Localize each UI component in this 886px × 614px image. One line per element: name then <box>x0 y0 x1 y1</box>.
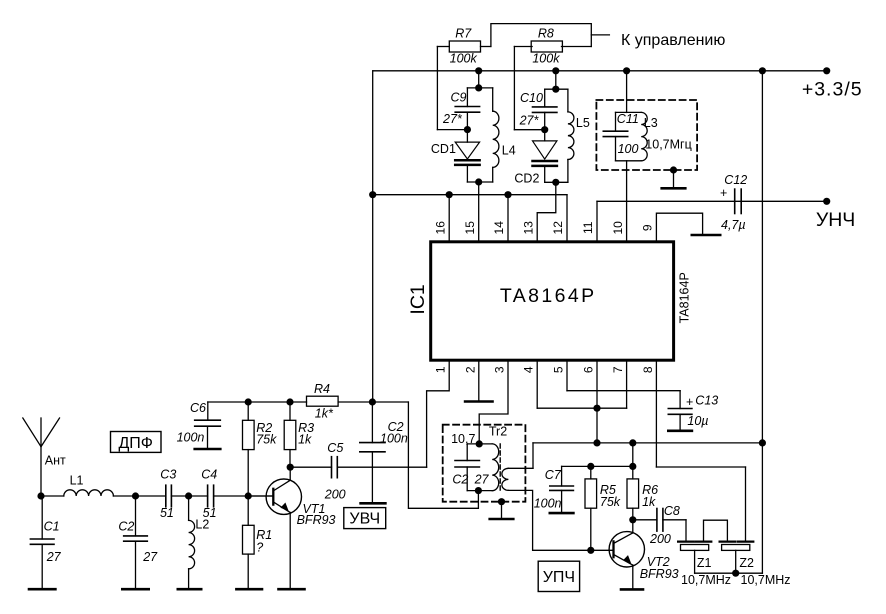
svg-text:?: ? <box>256 541 263 555</box>
svg-text:УПЧ: УПЧ <box>543 569 575 586</box>
svg-text:C2: C2 <box>118 519 134 533</box>
svg-text:1k: 1k <box>642 495 656 509</box>
svg-text:100n: 100n <box>534 496 562 510</box>
svg-text:+3.3/5: +3.3/5 <box>802 79 863 101</box>
svg-text:R8: R8 <box>538 27 554 41</box>
svg-text:Z1: Z1 <box>697 556 712 570</box>
svg-text:L2: L2 <box>195 517 209 531</box>
svg-text:+: + <box>686 395 693 409</box>
svg-text:C11: C11 <box>617 112 639 126</box>
svg-text:51: 51 <box>160 506 174 520</box>
svg-text:R7: R7 <box>455 27 472 41</box>
svg-text:C6: C6 <box>190 401 206 415</box>
svg-text:27*: 27* <box>519 113 540 127</box>
svg-text:TA8164P: TA8164P <box>500 285 597 307</box>
svg-text:14: 14 <box>492 221 506 235</box>
svg-text:100n: 100n <box>380 432 408 446</box>
svg-text:ДПФ: ДПФ <box>118 435 153 452</box>
svg-text:УВЧ: УВЧ <box>349 511 380 528</box>
svg-text:C13: C13 <box>695 394 718 408</box>
svg-text:Ант: Ант <box>45 454 66 468</box>
svg-text:1k*: 1k* <box>315 407 334 421</box>
svg-text:200: 200 <box>649 532 671 546</box>
svg-text:200: 200 <box>324 487 346 501</box>
svg-text:C9: C9 <box>451 91 467 105</box>
svg-text:C3: C3 <box>160 468 176 482</box>
svg-text:6: 6 <box>582 366 596 373</box>
svg-text:8: 8 <box>641 366 655 373</box>
svg-text:100k: 100k <box>450 51 478 65</box>
svg-text:C8: C8 <box>664 504 680 518</box>
svg-text:27: 27 <box>142 550 158 564</box>
svg-text:L3: L3 <box>644 116 658 130</box>
svg-text:10,7Мгц: 10,7Мгц <box>645 137 691 151</box>
svg-text:100k: 100k <box>532 51 560 65</box>
svg-text:+: + <box>720 186 727 200</box>
svg-text:Tr2: Tr2 <box>489 425 507 439</box>
svg-text:27*: 27* <box>442 112 463 126</box>
svg-text:12: 12 <box>551 221 565 235</box>
svg-text:10,7MHz: 10,7MHz <box>681 573 731 587</box>
svg-text:C7: C7 <box>545 468 562 482</box>
svg-text:C5: C5 <box>327 441 343 455</box>
svg-text:L5: L5 <box>576 116 590 130</box>
svg-text:3: 3 <box>493 366 507 373</box>
svg-text:100: 100 <box>618 142 639 156</box>
svg-text:CD2: CD2 <box>514 172 539 186</box>
svg-text:C10: C10 <box>520 91 543 105</box>
svg-text:2: 2 <box>463 366 477 373</box>
svg-text:CD1: CD1 <box>431 142 456 156</box>
svg-text:1: 1 <box>434 366 448 373</box>
svg-text:IC1: IC1 <box>407 284 429 314</box>
svg-text:R4: R4 <box>314 382 330 396</box>
svg-text:10µ: 10µ <box>687 414 708 428</box>
svg-text:К управлению: К управлению <box>621 32 725 49</box>
svg-text:Z2: Z2 <box>739 556 754 570</box>
svg-text:11: 11 <box>581 221 595 234</box>
svg-text:27: 27 <box>46 550 62 564</box>
svg-text:УНЧ: УНЧ <box>816 209 855 231</box>
svg-text:13: 13 <box>521 221 535 235</box>
svg-text:4,7µ: 4,7µ <box>721 218 746 232</box>
svg-text:L4: L4 <box>502 144 516 158</box>
svg-text:1k: 1k <box>298 433 312 447</box>
svg-text:C4: C4 <box>201 468 217 482</box>
svg-text:100n: 100n <box>177 431 205 445</box>
svg-text:C1: C1 <box>44 519 60 533</box>
svg-text:7: 7 <box>611 366 625 373</box>
svg-text:L1: L1 <box>70 474 84 488</box>
svg-text:4: 4 <box>522 366 536 373</box>
svg-text:15: 15 <box>463 221 477 235</box>
svg-text:C12: C12 <box>724 173 747 187</box>
svg-text:75k: 75k <box>256 433 277 447</box>
svg-text:75k: 75k <box>600 495 621 509</box>
svg-text:10: 10 <box>611 221 625 235</box>
svg-text:5: 5 <box>552 366 566 373</box>
svg-text:10,7MHz: 10,7MHz <box>741 573 791 587</box>
svg-text:BFR93: BFR93 <box>640 567 679 581</box>
svg-text:TA8164P: TA8164P <box>677 272 691 323</box>
svg-text:27: 27 <box>474 472 490 486</box>
svg-text:9: 9 <box>641 224 655 231</box>
svg-text:BFR93: BFR93 <box>297 513 336 527</box>
svg-text:C2: C2 <box>452 472 468 486</box>
svg-text:16: 16 <box>433 221 447 235</box>
